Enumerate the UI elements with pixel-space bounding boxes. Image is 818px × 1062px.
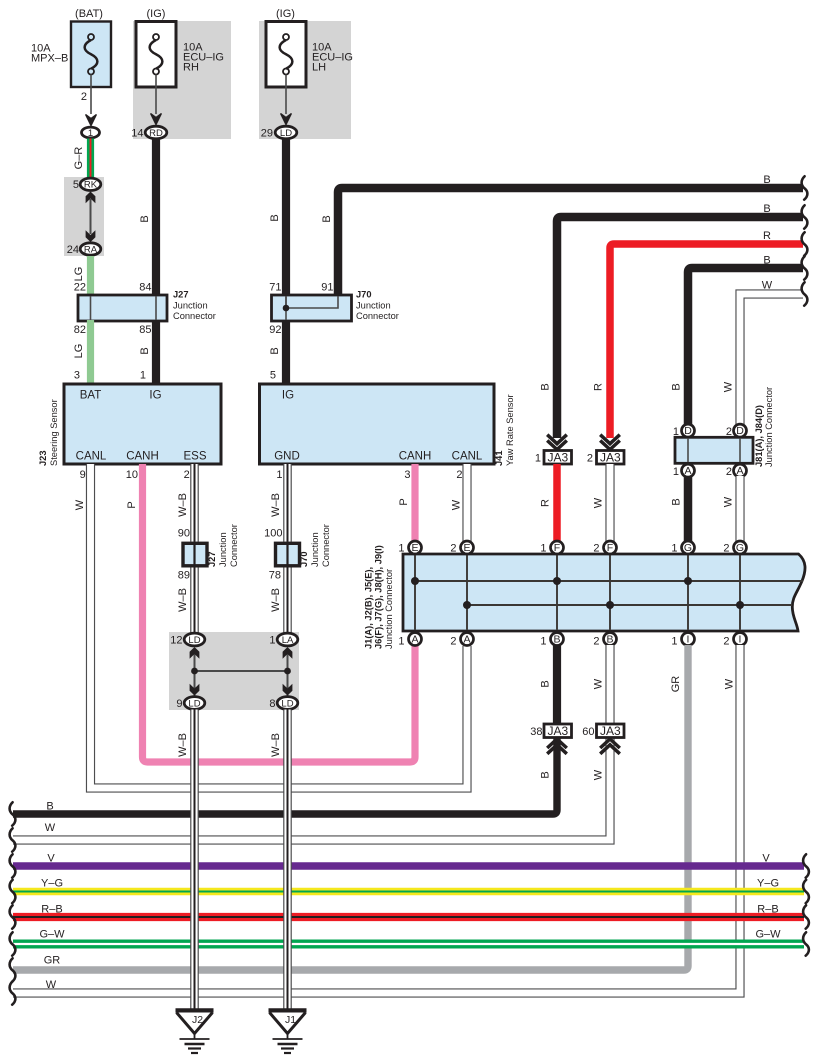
svg-text:J81(A), J84(D): J81(A), J84(D) [754, 405, 764, 467]
svg-text:Junction: Junction [310, 532, 320, 567]
svg-text:38: 38 [530, 726, 542, 738]
connector JA3 pin 1 [547, 435, 567, 444]
J70 internal link 71-91 [286, 296, 338, 308]
svg-text:Junction Connector: Junction Connector [384, 569, 394, 649]
svg-text:5: 5 [270, 370, 276, 382]
node RD [145, 126, 167, 139]
svg-text:W: W [46, 979, 57, 991]
shade box behind fuse ECU-IG LH [259, 21, 351, 139]
svg-text:R–B: R–B [41, 904, 62, 916]
svg-text:60: 60 [582, 726, 594, 738]
svg-text:V: V [762, 853, 770, 865]
svg-text:CANH: CANH [126, 451, 159, 463]
shade box behind fuse ECU-IG RH [133, 21, 231, 139]
svg-text:84: 84 [139, 282, 151, 294]
wire P from J41 CANH to JC pin 1E [411, 464, 418, 542]
svg-text:D: D [736, 425, 744, 437]
svg-text:2: 2 [184, 469, 190, 481]
svg-text:B: B [540, 771, 552, 778]
svg-text:P: P [398, 498, 410, 505]
wire B horizontal to JA3-1 [557, 217, 803, 438]
svg-text:B: B [671, 383, 683, 390]
svg-text:2: 2 [450, 543, 456, 555]
svg-text:V: V [47, 853, 55, 865]
node LD [275, 126, 297, 139]
svg-text:2: 2 [587, 453, 593, 465]
svg-text:W: W [593, 497, 605, 508]
svg-text:2: 2 [726, 466, 732, 478]
svg-text:78: 78 [269, 570, 281, 582]
svg-text:J41: J41 [494, 450, 504, 466]
svg-text:Connector: Connector [321, 524, 331, 567]
svg-text:2: 2 [723, 636, 729, 648]
svg-text:85: 85 [139, 324, 151, 336]
svg-text:1: 1 [671, 543, 677, 555]
svg-text:LA: LA [282, 635, 294, 646]
svg-text:B: B [139, 347, 151, 354]
svg-text:G–W: G–W [39, 929, 65, 941]
svg-text:14: 14 [131, 128, 143, 140]
wire RK to RA with mating arrows [90, 199, 92, 234]
svg-text:LD: LD [281, 698, 293, 709]
fuse 10A MPX-B (BAT) [71, 22, 111, 88]
svg-text:1: 1 [140, 370, 146, 382]
svg-text:(IG): (IG) [147, 8, 166, 20]
svg-text:90: 90 [178, 528, 190, 540]
wire W-B from J23 ESS down to J27 lower [190, 464, 199, 542]
fuse 10A ECU-IG LH (IG) [266, 22, 306, 88]
wire W-B LD8 to ground J1 [283, 710, 292, 1011]
svg-text:F: F [607, 542, 613, 554]
svg-text:B: B [671, 498, 683, 505]
svg-text:Connector: Connector [173, 311, 216, 321]
svg-text:G–W: G–W [755, 929, 781, 941]
svg-text:JA3: JA3 [600, 724, 621, 738]
wire W from JC 2I to left edge [13, 645, 740, 993]
svg-text:LG: LG [73, 344, 85, 359]
svg-text:D: D [684, 425, 692, 437]
node 2A [734, 464, 747, 477]
svg-text:W–B: W–B [177, 588, 189, 612]
svg-text:CANL: CANL [76, 451, 107, 463]
svg-text:A: A [411, 634, 418, 646]
svg-text:I: I [739, 634, 742, 646]
svg-text:1: 1 [535, 453, 541, 465]
svg-text:B: B [763, 255, 770, 267]
wire B J27 pin 85 to J23 IG [152, 320, 160, 384]
svg-text:2: 2 [593, 543, 599, 555]
svg-text:RD: RD [149, 128, 163, 139]
svg-text:1: 1 [671, 636, 677, 648]
JC internal bus upper [415, 580, 803, 582]
svg-text:B: B [269, 347, 281, 354]
wire W-B J70-78 to LA 1 [283, 568, 292, 634]
wire W from J23 CANL to JC pin 2A [91, 464, 468, 788]
svg-text:91: 91 [321, 282, 333, 294]
svg-text:W: W [723, 381, 735, 392]
svg-text:E: E [463, 542, 470, 554]
wire W-B from J41 GND down to J70 lower [283, 464, 292, 542]
svg-text:LD: LD [280, 128, 292, 139]
svg-text:2: 2 [723, 543, 729, 555]
svg-text:J2: J2 [192, 1014, 203, 1026]
svg-text:R–B: R–B [757, 904, 778, 916]
component J23 Steering Sensor [64, 384, 221, 464]
wire W-B LD9 to ground J2 [190, 710, 199, 1011]
svg-text:1: 1 [88, 128, 93, 139]
wire B from JC 1B through JA3-38 to left edge [553, 645, 561, 724]
wire G-W bus [13, 940, 804, 949]
svg-text:W–B: W–B [177, 493, 189, 517]
internal link LD12/LA1 to LD9/LD8 [194, 653, 196, 697]
svg-text:Connector: Connector [229, 524, 239, 567]
svg-text:W–B: W–B [270, 493, 282, 517]
wire LG J27 pin 82 to J23 BAT [87, 320, 94, 384]
svg-text:2: 2 [450, 636, 456, 648]
svg-text:2: 2 [456, 469, 462, 481]
node 1A [682, 464, 695, 477]
svg-text:9: 9 [80, 469, 86, 481]
wire Y-G bus [13, 888, 804, 896]
svg-text:8: 8 [269, 698, 275, 710]
svg-text:ESS: ESS [183, 451, 206, 463]
svg-text:A: A [463, 634, 470, 646]
svg-text:J27: J27 [207, 551, 217, 567]
wire B from LD to J70 pin 71 [282, 139, 290, 296]
svg-text:JA3: JA3 [547, 451, 568, 465]
svg-text:GR: GR [44, 955, 61, 967]
svg-text:24: 24 [67, 244, 79, 256]
svg-text:92: 92 [269, 324, 281, 336]
svg-text:G: G [736, 542, 744, 554]
wire W JA3-2 to JC pin 2F [605, 464, 614, 542]
component J41 Yaw Rate Sensor [260, 384, 495, 464]
svg-text:J1(A), J2(B), J5(E),: J1(A), J2(B), J5(E), [364, 567, 374, 649]
wire W horizontal to J81 pin 2D [740, 294, 803, 425]
svg-text:J6(F), J7(G), J8(H), J9(I): J6(F), J7(G), J8(H), J9(I) [374, 545, 384, 649]
svg-text:W: W [762, 280, 773, 292]
JC internal bus lower [467, 604, 792, 606]
wire B horizontal to J81 pin 1D [688, 268, 803, 425]
svg-text:W: W [724, 678, 736, 689]
svg-text:(IG): (IG) [276, 8, 295, 20]
svg-text:71: 71 [269, 282, 281, 294]
svg-text:I: I [687, 634, 690, 646]
wire G-R from node 1 to RK [87, 139, 94, 179]
svg-text:RA: RA [84, 244, 98, 255]
svg-text:B: B [553, 634, 560, 646]
svg-text:5: 5 [73, 179, 79, 191]
svg-text:12: 12 [170, 635, 182, 647]
svg-text:J27: J27 [173, 290, 189, 300]
svg-text:P: P [126, 501, 138, 508]
wire R horizontal to JA3-2 [610, 244, 803, 438]
svg-text:JA3: JA3 [547, 724, 568, 738]
wire LG from RA to J27 pin 22 [87, 256, 94, 295]
svg-text:W: W [723, 496, 735, 507]
wire B from RD to J27 pin 84 [152, 139, 160, 296]
svg-text:1: 1 [673, 466, 679, 478]
wire P from J23 CANH to JC pin 1A [143, 464, 416, 762]
squiggle B right edge [802, 176, 808, 199]
svg-text:G: G [684, 542, 692, 554]
wire W-B J27-89 to LD 12 [190, 568, 199, 634]
svg-text:A: A [684, 465, 691, 477]
svg-text:1: 1 [276, 469, 282, 481]
svg-text:R: R [540, 499, 552, 507]
svg-text:Y–G: Y–G [757, 878, 779, 890]
svg-text:22: 22 [74, 282, 86, 294]
svg-text:LD: LD [188, 698, 200, 709]
ground J1 [269, 1008, 307, 1013]
svg-text:2: 2 [593, 636, 599, 648]
svg-text:RK: RK [84, 180, 98, 191]
svg-text:GR: GR [670, 676, 682, 693]
svg-text:9: 9 [176, 698, 182, 710]
node 2D [734, 424, 747, 437]
node 1D [682, 424, 695, 437]
wire V bus [13, 862, 804, 870]
connector JA3 pin 2 [600, 435, 620, 444]
svg-text:B: B [540, 680, 552, 687]
svg-text:IG: IG [282, 390, 294, 402]
svg-text:2: 2 [81, 91, 87, 103]
ground J2 [176, 1008, 214, 1013]
svg-text:1: 1 [398, 543, 404, 555]
svg-text:3: 3 [74, 370, 80, 382]
svg-text:1: 1 [540, 543, 546, 555]
svg-text:J70: J70 [299, 551, 309, 567]
wire W from JC 2B through JA3-60 to left edge [605, 645, 614, 724]
svg-text:J70: J70 [356, 290, 372, 300]
svg-text:(BAT): (BAT) [75, 8, 103, 20]
svg-text:LD: LD [188, 635, 200, 646]
svg-text:100: 100 [264, 528, 282, 540]
svg-text:LH: LH [312, 61, 326, 73]
svg-text:3: 3 [404, 469, 410, 481]
svg-text:W–B: W–B [270, 733, 282, 757]
node 1 (connector oval) [82, 127, 100, 138]
fuse 10A ECU-IG RH (IG) [136, 22, 176, 88]
svg-text:1: 1 [398, 636, 404, 648]
svg-text:R: R [593, 383, 605, 391]
wire B J81 1A to JC 1G [684, 476, 693, 542]
svg-text:J1: J1 [285, 1014, 296, 1026]
svg-text:MPX–B: MPX–B [31, 52, 68, 64]
svg-text:1: 1 [269, 635, 275, 647]
wire R-B bus [13, 913, 804, 921]
svg-text:B: B [46, 801, 53, 813]
svg-text:Junction: Junction [173, 301, 208, 311]
wire fuse MPX-B pin 2 lead [90, 75, 92, 115]
junction connector J1(A),J2(B),J5(E),J6(F),J7(G),J8(H),J9(I) [403, 554, 805, 631]
svg-text:82: 82 [74, 324, 86, 336]
svg-text:Steering Sensor: Steering Sensor [49, 399, 59, 466]
svg-text:CANL: CANL [452, 451, 483, 463]
svg-text:A: A [736, 465, 743, 477]
svg-text:E: E [411, 542, 418, 554]
svg-text:B: B [763, 174, 770, 186]
svg-text:10: 10 [126, 469, 138, 481]
shade box behind connectors RK/RA [64, 177, 104, 256]
svg-text:B: B [540, 383, 552, 390]
svg-text:G–R: G–R [73, 147, 85, 170]
svg-text:Junction: Junction [356, 301, 391, 311]
shade box behind connectors LD/LA [169, 632, 299, 710]
svg-text:LG: LG [73, 267, 85, 282]
svg-text:Yaw Rate Sensor: Yaw Rate Sensor [505, 394, 515, 466]
svg-text:F: F [554, 542, 560, 554]
svg-text:W: W [451, 499, 463, 510]
wire W from J41 CANL to JC pin 2E [462, 464, 471, 542]
wire B from J70 pin 91 up and right to edge [338, 188, 803, 296]
svg-text:B: B [606, 634, 613, 646]
svg-text:B: B [139, 215, 151, 222]
svg-text:Y–G: Y–G [41, 878, 63, 890]
svg-text:W: W [74, 499, 86, 510]
wire fuse ECU-IG LH lead [285, 75, 287, 115]
svg-text:B: B [321, 215, 333, 222]
wire B J70 pin 92 to J41 IG [282, 320, 290, 384]
wire GR from JC 1I to left edge [13, 645, 688, 970]
svg-text:JA3: JA3 [600, 451, 621, 465]
svg-text:BAT: BAT [80, 390, 102, 402]
svg-text:W: W [45, 822, 56, 834]
svg-text:RH: RH [183, 61, 199, 73]
svg-text:Junction: Junction [218, 532, 228, 567]
wire R JA3-1 to JC pin 1F [553, 464, 561, 542]
svg-text:Junction Connector: Junction Connector [764, 387, 774, 467]
svg-text:IG: IG [149, 390, 161, 402]
wire W J81 2A to JC 2G [735, 476, 744, 542]
svg-text:W: W [593, 678, 605, 689]
svg-text:CANH: CANH [399, 451, 432, 463]
svg-text:J23: J23 [38, 450, 48, 466]
svg-text:Connector: Connector [356, 311, 399, 321]
svg-text:B: B [269, 214, 281, 221]
svg-text:29: 29 [261, 128, 273, 140]
wire fuse ECU-IG RH lead [155, 75, 157, 115]
svg-text:W–B: W–B [177, 733, 189, 757]
svg-text:B: B [763, 203, 770, 215]
svg-text:W–B: W–B [270, 588, 282, 612]
svg-text:1: 1 [540, 636, 546, 648]
svg-text:R: R [763, 230, 771, 242]
svg-text:89: 89 [178, 570, 190, 582]
svg-text:W: W [593, 769, 605, 780]
svg-text:GND: GND [274, 451, 300, 463]
